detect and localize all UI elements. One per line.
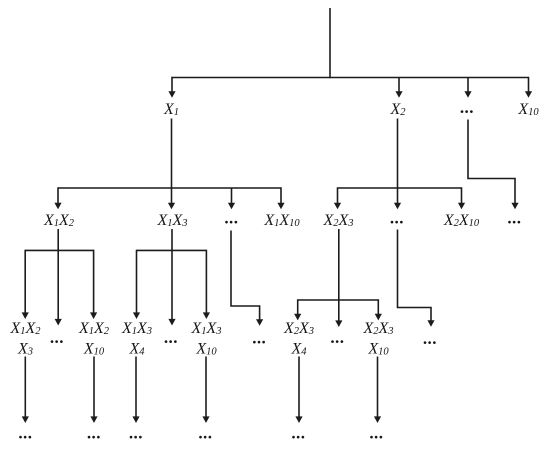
arrow below X1X3X4 xyxy=(132,357,139,424)
arrow to node X2X3 xyxy=(334,187,341,209)
svg-text:...: ... xyxy=(391,209,405,228)
arrow to node X1X3 (X1 center stem) xyxy=(168,188,175,209)
wire: X1X3 children horizontal bus xyxy=(137,249,207,251)
svg-text:...: ... xyxy=(165,328,179,347)
wire: level-1 horizontal bus xyxy=(172,77,529,79)
arrow to node X1X2X3 xyxy=(22,250,29,319)
svg-text:...: ... xyxy=(253,329,267,348)
svg-text:X1X2: X1X2 xyxy=(9,320,41,337)
arrow to node X2X10 xyxy=(458,187,465,209)
arrow to node X1X3X10 xyxy=(203,250,210,319)
wire+arrow: elbow from X1-subtree ellipsis to its child xyxy=(231,231,263,326)
arrow to node X1X2X10 xyxy=(90,250,97,319)
arrow center stem of X1X2 xyxy=(55,229,62,326)
arrow below X2X3X4 xyxy=(295,357,302,424)
arrow center stem of X2X3 xyxy=(335,229,342,327)
arrow below X1X2X3 xyxy=(22,357,29,424)
svg-text:...: ... xyxy=(331,328,345,347)
arrow to X1-subtree ellipsis node xyxy=(228,188,235,209)
svg-text:X1: X1 xyxy=(163,101,179,118)
svg-text:X4: X4 xyxy=(290,341,307,358)
svg-text:X10: X10 xyxy=(517,101,539,118)
svg-text:X4: X4 xyxy=(128,341,145,358)
svg-text:X1X2: X1X2 xyxy=(78,320,110,337)
svg-text:...: ... xyxy=(370,424,384,443)
svg-text:...: ... xyxy=(508,209,522,228)
svg-text:...: ... xyxy=(424,329,438,348)
wire: X1 stem xyxy=(171,119,173,189)
svg-text:...: ... xyxy=(130,424,144,443)
arrow to node X2X3X10 xyxy=(375,299,382,320)
svg-text:X1X3: X1X3 xyxy=(190,320,221,337)
svg-text:X2X3: X2X3 xyxy=(362,320,393,337)
arrow below X1X3X10 xyxy=(202,357,209,424)
arrow to level-1 ellipsis node xyxy=(464,78,471,98)
svg-text:X1X3: X1X3 xyxy=(121,320,152,337)
svg-text:...: ... xyxy=(19,424,33,443)
arrow to node X2 xyxy=(395,78,402,98)
svg-text:...: ... xyxy=(225,209,239,228)
svg-text:X10: X10 xyxy=(367,341,389,358)
arrow to node X1 xyxy=(168,77,175,98)
arrow below X1X2X10 xyxy=(90,357,97,424)
wire+arrow: elbow from X2-subtree ellipsis to its child xyxy=(398,230,435,327)
arrow to X2-subtree ellipsis node (X2 center stem) xyxy=(394,188,401,209)
wire+arrow: elbow from level-1 ellipsis to its child xyxy=(468,120,519,210)
svg-text:X10: X10 xyxy=(83,341,105,358)
svg-text:X2X3: X2X3 xyxy=(322,212,353,229)
wire: X2 children horizontal bus xyxy=(338,187,462,189)
svg-text:X1X3: X1X3 xyxy=(156,212,187,229)
svg-text:...: ... xyxy=(51,328,65,347)
svg-text:...: ... xyxy=(461,98,475,117)
arrow to node X2X3X4 xyxy=(294,299,301,320)
svg-text:X2X3: X2X3 xyxy=(283,320,314,337)
svg-text:X2: X2 xyxy=(389,101,406,118)
wire: X2X3 children horizontal bus xyxy=(298,299,379,301)
svg-text:X3: X3 xyxy=(17,341,33,358)
wire: X1 children horizontal bus xyxy=(58,187,281,189)
arrow below X2X3X10 xyxy=(374,357,381,424)
svg-text:X10: X10 xyxy=(195,341,217,358)
wire: X2 stem xyxy=(397,119,399,189)
arrow to node X1X3X4 xyxy=(133,250,140,319)
wire: X1X2 children horizontal bus xyxy=(25,249,93,251)
svg-text:...: ... xyxy=(88,424,102,443)
arrow center stem of X1X3 xyxy=(168,229,175,326)
arrow to node X10 xyxy=(525,77,532,98)
wire: root trunk vertical xyxy=(329,8,331,78)
svg-text:X1X2: X1X2 xyxy=(43,212,75,229)
svg-text:X2X10: X2X10 xyxy=(443,212,480,229)
svg-text:...: ... xyxy=(199,424,213,443)
arrow to node X1X2 xyxy=(54,187,61,209)
svg-text:...: ... xyxy=(292,424,306,443)
arrow to node X1X10 xyxy=(277,187,284,209)
svg-text:X1X10: X1X10 xyxy=(263,212,300,229)
